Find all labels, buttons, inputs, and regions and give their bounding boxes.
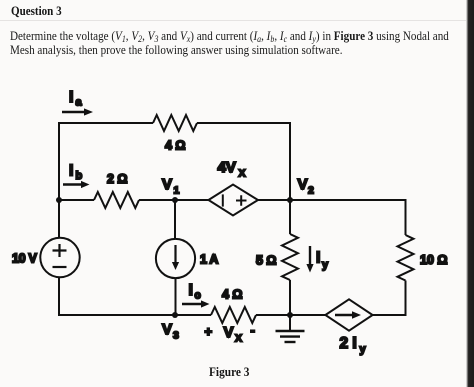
value label: 10 ohm	[420, 253, 447, 267]
paragraph: problem statement	[10, 30, 468, 58]
value label: 4 ohm (bottom)	[222, 288, 242, 302]
value label: 1 A	[200, 253, 218, 267]
svg-text:y: y	[322, 259, 329, 271]
current label Ia	[69, 89, 83, 109]
svg-text:I: I	[316, 250, 320, 267]
node label V2	[298, 176, 315, 197]
svg-text:y: y	[360, 344, 367, 356]
svg-text:I: I	[189, 282, 193, 299]
wire: right column top (mid wire down to 10 ohm)	[405, 199, 407, 235]
node: ground junction dot	[287, 312, 293, 318]
svg-text:3: 3	[173, 330, 179, 342]
svg-text:X: X	[239, 168, 246, 180]
resistor R2 2ohm	[94, 192, 139, 208]
dependent voltage source U1 4Vx (diamond)	[209, 185, 259, 216]
current source IS1 1 A	[156, 239, 195, 278]
svg-text:c: c	[195, 290, 201, 302]
resistor R4 10ohm (vertical)	[398, 235, 414, 281]
wire: top wire left segment	[58, 122, 153, 124]
wire: bottom wire diamond to right column	[373, 314, 407, 316]
faint ruled line	[0, 20, 466, 21]
wire: V1 down to 1A source	[174, 200, 176, 239]
value label: 4 ohm (top)	[165, 139, 185, 153]
svg-text:V: V	[298, 176, 308, 193]
svg-text:1 A: 1 A	[200, 253, 218, 267]
wire: V2 down to 5 ohm	[289, 200, 291, 234]
title: Question 3	[11, 4, 62, 19]
svg-text:10 Ω: 10 Ω	[420, 253, 447, 267]
resistor R1 4ohm (top)	[153, 115, 197, 131]
scan edge: right black bar	[466, 0, 474, 387]
source label: 2 Iy	[340, 335, 367, 356]
wire: vertical from top wire down to node V2	[289, 122, 291, 200]
caption: Figure 3	[209, 365, 249, 380]
resistor R3 5ohm (vertical)	[282, 234, 298, 280]
svg-text:V: V	[162, 176, 172, 193]
wire: left vertical lower (10V bottom to bottom wire)	[58, 277, 60, 316]
current label Iy	[316, 250, 329, 272]
svg-text:1: 1	[174, 185, 180, 197]
svg-text:5 Ω: 5 Ω	[256, 254, 276, 268]
svg-text:I: I	[69, 89, 73, 106]
wire: bottom wire left segment	[58, 314, 211, 316]
node V2 (junction dot)	[287, 197, 293, 203]
wire: right column bottom (10 ohm to bottom wire)	[405, 281, 407, 317]
node: junction at left vertical / mid wire	[56, 197, 62, 203]
svg-text:I: I	[69, 163, 73, 180]
arrow: Iy direction (down)	[306, 246, 313, 273]
dependent current source U2 2Iy (diamond)	[325, 299, 372, 330]
current label Ic	[189, 282, 201, 302]
svg-text:2 I: 2 I	[340, 335, 357, 352]
svg-text:X: X	[235, 333, 242, 345]
svg-text:b: b	[76, 170, 83, 182]
source label: 4Vx	[218, 159, 246, 180]
arrow: Ia direction	[62, 108, 93, 115]
node V3 (junction dot)	[172, 312, 178, 318]
wire: mid wire diamond to right column	[258, 199, 406, 201]
wire: 5 ohm down to bottom wire	[289, 280, 291, 316]
resistor R5 4ohm (bottom)	[211, 307, 256, 323]
wire: mid wire from left vertical to 2 ohm	[59, 199, 94, 201]
svg-text:V: V	[162, 321, 172, 338]
svg-text:-: -	[251, 323, 255, 338]
wire: top wire right segment	[197, 122, 291, 124]
svg-text:2: 2	[308, 185, 314, 197]
wire: bottom wire ground to 2Iy diamond	[290, 314, 326, 316]
svg-text:4V: 4V	[218, 159, 236, 176]
node label V1	[162, 176, 180, 197]
arrow: Ib direction	[63, 181, 90, 188]
svg-text:2 Ω: 2 Ω	[107, 172, 127, 186]
wire: mid wire 2ohm to diamond	[139, 199, 209, 201]
arrow: Ic direction	[182, 300, 210, 307]
svg-text:+: +	[205, 324, 213, 339]
svg-text:4 Ω: 4 Ω	[165, 139, 185, 153]
current label Ib	[69, 163, 83, 183]
svg-text:10 V: 10 V	[12, 252, 37, 266]
wire: left vertical upper (10V top to top wire)	[58, 123, 60, 238]
svg-text:a: a	[76, 97, 83, 109]
svg-text:V: V	[224, 324, 234, 341]
wire: bottom wire 4ohm to ground junction	[256, 314, 290, 316]
ground symbol	[276, 315, 305, 342]
value label: 10 V	[12, 252, 37, 266]
polarity label: + Vx -	[205, 323, 255, 345]
node label V3	[162, 321, 179, 342]
node V1 (junction dot)	[172, 197, 178, 203]
value label: 5 ohm	[256, 254, 276, 268]
value label: 2 ohm	[107, 172, 127, 186]
wire: 1A source down to bottom wire	[175, 278, 177, 316]
voltage source VS1 10 V	[40, 238, 79, 277]
svg-text:4 Ω: 4 Ω	[222, 288, 242, 302]
